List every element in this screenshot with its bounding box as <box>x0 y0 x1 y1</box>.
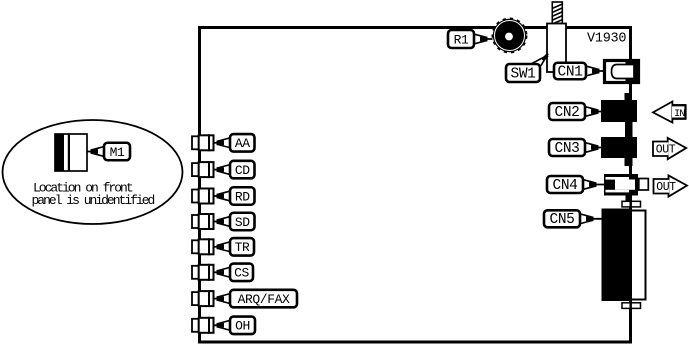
svg-text:CN3: CN3 <box>555 141 580 157</box>
svg-text:OH: OH <box>235 319 250 334</box>
svg-text:TR: TR <box>235 240 250 255</box>
svg-text:CN5: CN5 <box>550 212 575 228</box>
svg-text:OUT: OUT <box>656 144 676 157</box>
svg-text:ARQ/FAX: ARQ/FAX <box>238 292 290 307</box>
svg-text:AA: AA <box>235 136 250 151</box>
svg-text:OUT: OUT <box>656 181 676 194</box>
svg-text:SW1: SW1 <box>511 66 536 82</box>
svg-text:CN4: CN4 <box>553 178 578 194</box>
svg-text:CN1: CN1 <box>558 64 583 80</box>
svg-text:IN: IN <box>674 108 685 120</box>
svg-text:CD: CD <box>235 163 250 178</box>
svg-text:V1930: V1930 <box>587 32 626 47</box>
svg-text:M1: M1 <box>110 145 125 160</box>
svg-text:RD: RD <box>235 189 250 204</box>
svg-text:panel is unidentified: panel is unidentified <box>32 193 155 208</box>
svg-text:SD: SD <box>235 215 250 230</box>
svg-text:CS: CS <box>234 266 249 281</box>
svg-text:CN2: CN2 <box>555 105 580 121</box>
svg-text:R1: R1 <box>454 32 469 47</box>
